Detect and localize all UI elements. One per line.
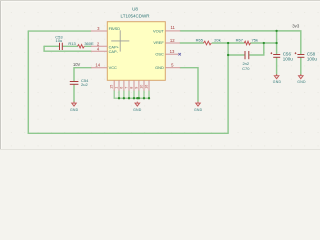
svg-text:VCC: VCC (109, 65, 117, 70)
svg-text:R13: R13 (68, 41, 76, 46)
svg-text:2u2: 2u2 (81, 82, 88, 87)
svg-text:VREF: VREF (153, 40, 164, 45)
svg-text:GND: GND (70, 108, 79, 112)
svg-text:75k: 75k (252, 38, 258, 43)
svg-text:15: 15 (110, 85, 114, 89)
svg-text:10V: 10V (73, 62, 81, 67)
svg-text:GND: GND (273, 80, 282, 84)
svg-text:OSC: OSC (155, 52, 164, 57)
svg-text:U8: U8 (132, 7, 138, 12)
svg-text:1: 1 (115, 87, 119, 89)
svg-text:R65: R65 (196, 38, 204, 43)
svg-text:14: 14 (95, 63, 100, 68)
svg-text:C70: C70 (242, 66, 250, 71)
svg-text:13: 13 (170, 49, 175, 54)
svg-text:GND: GND (155, 65, 164, 70)
svg-text:16: 16 (145, 85, 149, 89)
svg-text:R67: R67 (236, 38, 244, 43)
svg-text:7: 7 (125, 87, 129, 89)
svg-text:GND: GND (133, 108, 142, 112)
svg-text:FB/SD: FB/SD (109, 26, 121, 31)
svg-text:11: 11 (170, 25, 175, 30)
svg-text:20k: 20k (214, 38, 220, 43)
svg-text:360E: 360E (84, 41, 94, 46)
svg-text:3v3: 3v3 (292, 24, 300, 29)
svg-text:LT1054CDWR: LT1054CDWR (121, 13, 151, 18)
svg-text:10: 10 (140, 85, 144, 89)
svg-text:12: 12 (170, 38, 175, 43)
svg-text:GND: GND (194, 108, 203, 112)
svg-text:100u: 100u (283, 56, 294, 61)
svg-text:8: 8 (130, 87, 134, 89)
svg-text:CAP-: CAP- (109, 49, 119, 54)
svg-text:9: 9 (134, 87, 138, 89)
svg-text:10u: 10u (56, 38, 63, 43)
svg-text:VOUT: VOUT (153, 28, 164, 33)
svg-text:6: 6 (119, 87, 123, 89)
svg-text:GND: GND (297, 80, 306, 84)
svg-text:100u: 100u (307, 56, 318, 61)
